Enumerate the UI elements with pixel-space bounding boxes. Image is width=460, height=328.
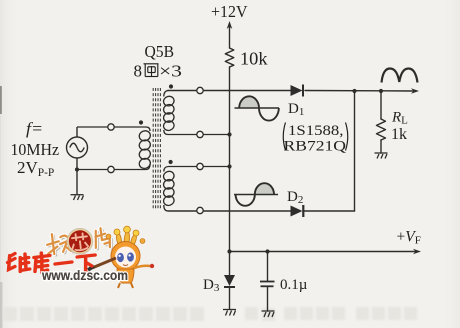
svg-text:Q5B: Q5B [145,42,175,61]
diode D3 (vertical, pointing down) [224,275,235,287]
node sec2 bottom [197,207,203,213]
svg-text:10MHz: 10MHz [11,140,60,159]
phase dot secondary bottom [169,160,173,164]
svg-text:RB721Q: RB721Q [284,139,347,155]
ground (source) [71,195,84,200]
watermark: wei-ku-yi-xia red chars (drawn) [8,253,96,272]
char zhao (outlined orange) [48,233,73,256]
diode D2 [291,205,304,217]
resistor RL zigzag [377,119,386,140]
scan artifact left edge streaks [0,86,2,114]
transformer T1 primary winding [77,127,152,170]
watermark mascot [88,226,154,288]
resistor R (10k) [225,48,234,67]
junction: center line / sec1 bottom [227,132,231,136]
red circle with xin char [67,228,94,255]
wire: source top lead [167,90,169,92]
ground (RL) [375,153,388,159]
waveform annotation output (two humps) [382,69,418,83]
svg-text:+12V: +12V [211,2,248,21]
junction: output rail / RL [379,89,383,93]
node primary top [108,124,114,130]
head [111,242,140,271]
source V1 sine generator [67,127,88,195]
label (1S1588, RB721Q) [283,123,348,155]
waveform annotation at D1 (sine, first half shaded) [235,96,280,120]
xia [77,255,95,272]
label 8[turns]x3 (8匝×3 drawn) [134,62,183,81]
junction: VF rail / capacitor [265,249,269,253]
node sec2 top [197,163,203,169]
body [117,269,134,283]
junction: output rail / D2 riser [352,89,356,93]
wire: top rail y=90.5 (D1 row / output) [168,90,291,92]
wire: +12V drop to top rail [229,26,231,48]
char pian (outlined orange) [95,229,112,251]
eyes [117,253,124,262]
crown prongs [116,232,136,246]
ground (D3) [223,310,236,316]
svg-text:10k: 10k [240,49,268,69]
junction: center line / sec2 top [227,164,231,168]
arm left holding stick [92,258,116,268]
capacitor C1 plates [260,282,275,287]
faint caption at bottom [3,307,417,321]
node sec1 bottom [197,131,203,137]
wire: center tap line down [229,91,231,276]
junction: VF rail / center line [227,249,231,253]
ku [34,253,50,272]
watermark: zhao-xin-pian stylized chars [46,225,113,258]
wire: D2 row y=210.5 [168,210,291,212]
wire: capacitor stems [267,252,269,282]
svg-text:×3: ×3 [159,62,182,81]
arrow +12V [227,21,233,29]
wire: +VF rail y=251.5 [230,251,416,253]
wire: RL drop [380,91,382,119]
transformer core (dashed) [153,88,160,209]
node primary bottom [108,166,114,172]
wire: D3 lower stem [229,288,231,309]
waveform annotation at D2 (sine, second half shaded) [234,183,278,206]
node sec1 top [197,87,203,93]
wei [8,254,30,272]
junction source bottom [75,167,79,171]
svg-text:f=: f= [26,119,43,138]
arrow output right [411,88,419,94]
wire: D2 riser up to output rail [354,91,356,211]
phase dot secondary top [169,84,173,88]
svg-text:1S1588,: 1S1588, [288,123,344,139]
svg-text:0.1µ: 0.1µ [280,277,308,293]
arrow +VF [413,249,421,255]
legs [118,283,133,288]
node circles (terminals) [108,87,203,213]
yi [55,262,72,264]
arm right with brush [134,266,150,268]
transformer T1 secondary bottom winding [162,167,229,212]
phase dot primary [139,120,143,124]
svg-text:www.dzsc.com: www.dzsc.com [41,267,128,283]
svg-text:8: 8 [134,62,143,81]
svg-text:1k: 1k [391,126,407,143]
diode D1 [291,85,304,97]
transformer T1 secondary top winding [162,91,229,135]
ground (capacitor) [262,311,275,317]
